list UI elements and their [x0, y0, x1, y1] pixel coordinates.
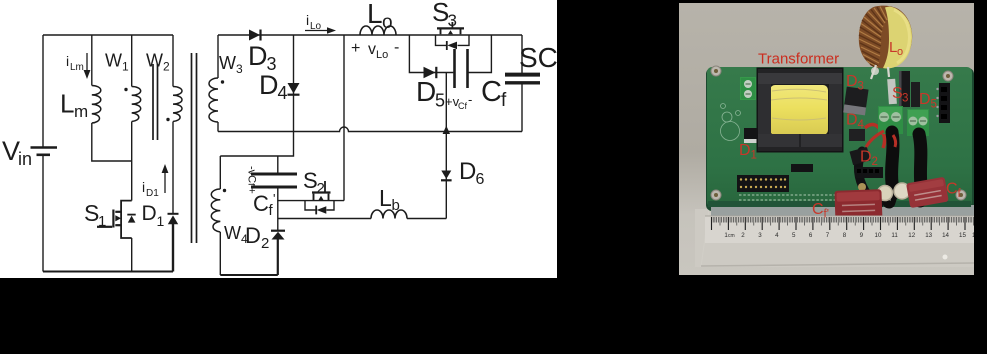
svg-text:Lo: Lo: [310, 21, 322, 32]
svg-text:C: C: [812, 201, 824, 218]
svg-text:4: 4: [278, 83, 288, 103]
svg-text:2: 2: [872, 156, 878, 168]
svg-text:C: C: [481, 76, 502, 108]
svg-text:2: 2: [261, 235, 269, 252]
svg-text:D: D: [416, 76, 436, 107]
svg-text:C: C: [253, 191, 269, 216]
svg-text:cm: cm: [728, 233, 735, 239]
svg-text:15: 15: [959, 232, 966, 239]
svg-text:5: 5: [792, 232, 796, 239]
svg-text:2: 2: [317, 180, 325, 197]
svg-text:L: L: [379, 185, 392, 211]
svg-text:L: L: [60, 89, 74, 119]
svg-text:in: in: [18, 149, 32, 169]
svg-text:3: 3: [858, 81, 864, 93]
svg-text:8: 8: [843, 232, 847, 239]
svg-text:o: o: [382, 12, 393, 33]
svg-text:13: 13: [925, 232, 932, 239]
svg-text:3: 3: [758, 232, 762, 239]
svg-text:i: i: [142, 179, 145, 195]
svg-text:f': f': [824, 209, 829, 221]
svg-text:i: i: [306, 12, 309, 28]
svg-text:D: D: [846, 112, 858, 129]
svg-text:10: 10: [875, 232, 882, 239]
svg-text:m: m: [74, 102, 88, 121]
svg-text:f: f: [501, 90, 507, 111]
svg-text:5: 5: [931, 99, 937, 111]
svg-text:2: 2: [741, 232, 745, 239]
svg-text:9: 9: [860, 232, 864, 239]
svg-text:+: +: [351, 40, 360, 57]
svg-text:1: 1: [157, 213, 165, 229]
svg-text:D: D: [860, 149, 872, 166]
svg-text:D: D: [245, 223, 261, 248]
svg-text:4: 4: [775, 232, 779, 239]
svg-text:3: 3: [902, 93, 908, 105]
svg-text:D1: D1: [146, 188, 159, 199]
svg-text:W: W: [146, 51, 163, 71]
svg-text:': ': [273, 191, 275, 206]
svg-text:Cf: Cf: [458, 101, 467, 111]
svg-text:C: C: [946, 181, 958, 198]
svg-text:1: 1: [98, 213, 106, 230]
svg-text:12: 12: [908, 232, 915, 239]
svg-text:D: D: [846, 73, 858, 90]
svg-text:Lm: Lm: [70, 62, 84, 73]
svg-text:W: W: [224, 223, 241, 243]
svg-text:14: 14: [942, 232, 949, 239]
svg-text:3: 3: [448, 11, 457, 30]
svg-text:1: 1: [122, 60, 129, 74]
svg-text:-vCf'+: -vCf'+: [246, 166, 258, 194]
svg-text:D: D: [919, 91, 931, 108]
svg-text:11: 11: [891, 232, 898, 239]
svg-text:-: -: [394, 39, 399, 56]
svg-text:D: D: [142, 202, 157, 225]
svg-text:7: 7: [826, 232, 830, 239]
svg-text:b: b: [392, 197, 400, 214]
svg-text:1: 1: [751, 150, 757, 162]
svg-text:D: D: [739, 142, 751, 159]
svg-text:6: 6: [476, 171, 485, 188]
svg-text:-: -: [468, 92, 472, 107]
svg-text:Transformer: Transformer: [758, 51, 839, 68]
svg-text:D: D: [248, 41, 268, 71]
svg-text:SC: SC: [519, 42, 557, 73]
svg-text:o: o: [897, 46, 903, 58]
svg-text:3: 3: [236, 62, 243, 76]
svg-text:v: v: [368, 41, 376, 58]
svg-text:D: D: [259, 70, 279, 100]
svg-text:L: L: [367, 0, 383, 29]
svg-text:S: S: [303, 168, 318, 193]
svg-text:16: 16: [972, 232, 974, 239]
svg-text:5: 5: [435, 91, 445, 111]
svg-text:W: W: [105, 51, 122, 71]
svg-text:6: 6: [809, 232, 813, 239]
svg-text:4: 4: [858, 119, 865, 131]
svg-text:2: 2: [163, 60, 170, 74]
svg-text:i: i: [66, 53, 69, 69]
svg-text:W: W: [219, 53, 236, 73]
svg-text:D: D: [459, 158, 476, 185]
svg-text:Lo: Lo: [376, 49, 388, 61]
